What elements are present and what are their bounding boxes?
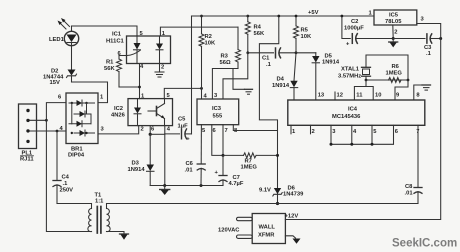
label D2 1N4744 15V xyxy=(43,69,64,87)
wire IC3 pin8 right to supply line xyxy=(233,125,277,131)
IC4 MC145436 xyxy=(288,100,425,125)
svg-text:R5: R5 xyxy=(301,28,309,34)
svg-text:1N914: 1N914 xyxy=(322,60,340,66)
capacitor C1 xyxy=(248,48,296,58)
zener D6 9.1V xyxy=(273,188,282,196)
wire PL1 down to T1 primary bottom xyxy=(46,120,91,231)
diode D3 xyxy=(147,134,155,185)
svg-text:C4: C4 xyxy=(62,175,70,181)
svg-text:4.7µF: 4.7µF xyxy=(229,181,244,187)
BR1 internal diodes xyxy=(69,100,95,136)
bridge rectifier BR1 DIP04 xyxy=(66,93,98,144)
svg-text:MC145436: MC145436 xyxy=(332,114,361,120)
svg-text:15V: 15V xyxy=(50,80,60,86)
ground symbol on rail xyxy=(160,186,170,196)
+5V rail xyxy=(192,15,375,17)
svg-text:+: + xyxy=(186,137,190,143)
svg-text:C2: C2 xyxy=(351,19,358,25)
opto-coupler IC2 4N26 xyxy=(128,99,173,126)
svg-text:R6: R6 xyxy=(392,64,400,70)
wire IC3 pin7 down xyxy=(222,125,224,156)
svg-text:RJ11: RJ11 xyxy=(20,157,34,163)
svg-text:.1: .1 xyxy=(63,181,69,187)
crystal loop to pins 11 and 10 xyxy=(354,80,366,100)
wire IC2 pin4 down to ground rail xyxy=(164,126,166,186)
svg-text:.1: .1 xyxy=(426,51,432,57)
wire PL1 pin2 to BR1 pin6 xyxy=(30,103,66,121)
wire D2 to BR1 pin1 xyxy=(72,82,108,103)
IC4 bottom pin numbers xyxy=(292,129,420,135)
svg-text:1N4739: 1N4739 xyxy=(283,192,304,198)
svg-text:56K: 56K xyxy=(104,66,115,72)
svg-text:LED1: LED1 xyxy=(49,37,65,43)
wire BR1 pin3 to IC2 pin2 xyxy=(98,126,139,134)
capacitor C6 xyxy=(197,125,205,186)
wire IC1 pin1 up and right to R3 top rail corner xyxy=(160,27,238,36)
wire IC2 pin5 to R2 bottom node xyxy=(164,88,201,98)
IC4 pins 3-6 bus xyxy=(330,125,332,144)
resistor R2 with rail and pin4 connection xyxy=(199,16,204,99)
wire C5 up to +5V rail corner xyxy=(191,16,193,134)
wire R4 branch down to IC3 top xyxy=(223,53,248,99)
svg-text:R4: R4 xyxy=(254,25,262,31)
svg-text:XFMR: XFMR xyxy=(258,233,275,239)
svg-text:+12V: +12V xyxy=(285,214,299,220)
svg-text:.1: .1 xyxy=(266,62,272,68)
svg-text:IC4: IC4 xyxy=(348,107,358,113)
svg-text:3.57MHz: 3.57MHz xyxy=(338,74,361,80)
wire IC3 pin6 to pin7 and R7 xyxy=(212,125,223,156)
svg-text:XTAL1: XTAL1 xyxy=(341,67,360,73)
IC1 internal diode right xyxy=(156,36,163,64)
IC4 pin7 down to C8 xyxy=(417,125,419,187)
IC5 pin2 to ground xyxy=(392,25,394,39)
IC4 top pin numbers xyxy=(318,93,421,99)
svg-text:IC2: IC2 xyxy=(114,106,123,112)
svg-text:7: 7 xyxy=(225,128,228,134)
svg-text:WALL: WALL xyxy=(259,225,276,231)
IC4 bottom stubs pins 1,2 xyxy=(290,125,292,134)
svg-text:2: 2 xyxy=(161,65,164,71)
capacitor C3 xyxy=(393,34,441,43)
regulator IC5 78L05 xyxy=(374,10,417,25)
pin12 stub xyxy=(334,92,336,100)
resistor R3 xyxy=(236,27,241,68)
svg-text:9.1V: 9.1V xyxy=(259,188,271,194)
capacitor C5 xyxy=(182,129,192,139)
svg-text:56K: 56K xyxy=(254,31,265,37)
svg-text:250V: 250V xyxy=(60,188,74,194)
svg-text:56Ω: 56Ω xyxy=(220,60,231,66)
crystal XTAL1 loop with R6 xyxy=(362,55,409,83)
capacitor C7 xyxy=(219,155,227,185)
svg-text:IC1: IC1 xyxy=(112,32,122,38)
svg-text:SeekIC.com: SeekIC.com xyxy=(392,238,457,250)
svg-text:11: 11 xyxy=(356,93,363,99)
resistor R4 xyxy=(245,16,250,53)
wire PL1 pin3 to BR1 pin4 xyxy=(30,130,66,132)
svg-text:R1: R1 xyxy=(106,60,114,66)
resistor R5 xyxy=(294,16,299,53)
wire C4 to T1 primary top xyxy=(57,203,92,205)
wall transformer WALL XFMR xyxy=(252,214,285,244)
wire LED1 top to IC1 pin5 xyxy=(72,26,138,36)
supply feed: rail down to 555/zener column xyxy=(259,16,278,204)
crystal loop right to pin 9 xyxy=(395,80,408,100)
svg-text:1000µF: 1000µF xyxy=(344,26,364,32)
opto-coupler IC1 H11C1 xyxy=(127,36,171,64)
svg-text:1µF: 1µF xyxy=(178,124,189,130)
svg-text:DIP04: DIP04 xyxy=(68,153,85,159)
wire R3 bottom to IC3 pin3 xyxy=(212,69,238,100)
ground rail below IC2/IC3 xyxy=(150,185,223,187)
svg-text:+5V: +5V xyxy=(308,10,319,16)
svg-text:2: 2 xyxy=(141,127,144,133)
svg-text:.01: .01 xyxy=(405,190,414,196)
capacitor C2 xyxy=(342,16,393,43)
long bottom wire from T1 secondary to C8 xyxy=(107,203,419,205)
svg-text:.01: .01 xyxy=(185,168,194,174)
zener D2 xyxy=(67,46,77,82)
T1 secondary bottom to ground xyxy=(107,232,125,235)
ground at IC1 pin2 xyxy=(155,64,164,78)
svg-text:78L05: 78L05 xyxy=(385,19,402,25)
svg-text:D4: D4 xyxy=(277,77,285,83)
svg-text:C7: C7 xyxy=(233,175,240,181)
svg-text:R3: R3 xyxy=(221,54,229,60)
pin 8 to ground xyxy=(414,85,422,100)
svg-text:120VAC: 120VAC xyxy=(218,228,240,234)
svg-text:12: 12 xyxy=(337,93,343,99)
wall xfmr lower output to ground xyxy=(285,236,295,238)
transformer T1 xyxy=(95,193,105,205)
svg-text:D3: D3 xyxy=(132,161,140,167)
svg-text:4N26: 4N26 xyxy=(111,113,126,119)
plug prongs xyxy=(237,217,253,220)
IC1 internal photo-SCR xyxy=(127,36,141,64)
connector PL1 RJ11 xyxy=(19,104,37,149)
IC1 pin numbers xyxy=(118,31,166,71)
ground branch from R3 node xyxy=(233,69,245,90)
svg-text:IC3: IC3 xyxy=(212,106,222,112)
capacitor C8 xyxy=(414,188,422,204)
capacitor C4 xyxy=(53,181,61,204)
LED LED1 xyxy=(64,26,78,46)
svg-text:2: 2 xyxy=(312,129,315,135)
svg-text:10K: 10K xyxy=(301,34,312,40)
svg-text:1N914: 1N914 xyxy=(272,83,290,89)
IC2 internal phototransistor xyxy=(148,99,165,126)
diode D5 xyxy=(296,53,320,100)
svg-text:13: 13 xyxy=(318,93,325,99)
IC2 internal diode xyxy=(134,99,141,126)
svg-text:10K: 10K xyxy=(205,41,216,47)
svg-text:C5: C5 xyxy=(178,117,186,123)
svg-text:R2: R2 xyxy=(205,34,212,40)
svg-text:10: 10 xyxy=(375,93,381,99)
svg-text:IC5: IC5 xyxy=(389,13,399,19)
wire node to C4 xyxy=(56,131,58,180)
svg-text:1MEG: 1MEG xyxy=(241,164,258,170)
resistor R7 xyxy=(223,153,278,158)
svg-text:C1: C1 xyxy=(262,56,270,62)
svg-text:1MEG: 1MEG xyxy=(386,71,403,77)
svg-text:1N914: 1N914 xyxy=(128,167,146,173)
wire IC2 pin6 down xyxy=(149,126,151,135)
svg-text:C8: C8 xyxy=(405,184,413,190)
diode D4 xyxy=(290,53,297,100)
svg-text:H11C1: H11C1 xyxy=(106,39,125,45)
resistor R1 xyxy=(117,56,140,88)
wire C5 branch xyxy=(165,133,180,135)
svg-text:C6: C6 xyxy=(186,161,194,167)
svg-text:1:1: 1:1 xyxy=(95,199,104,205)
svg-text:D6: D6 xyxy=(288,186,296,192)
node: IC1 pin4 to IC2 pin1 xyxy=(139,64,141,99)
svg-text:555: 555 xyxy=(213,114,223,120)
wire IC5 pin3 to right-side line down to +12V xyxy=(285,24,440,220)
wire pin6 node right to pin4 line xyxy=(150,133,165,135)
LED1 light arrows xyxy=(58,18,70,29)
svg-text:2: 2 xyxy=(394,30,397,36)
timer IC3 555 xyxy=(197,99,239,125)
